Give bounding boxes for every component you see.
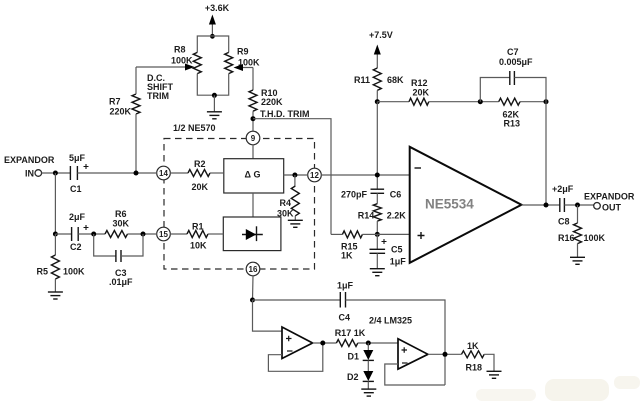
svg-text:R16: R16	[558, 233, 575, 243]
wire R16 drop	[577, 205, 579, 223]
svg-text:9: 9	[251, 134, 256, 143]
resistor R18 1K	[462, 341, 485, 373]
wire R2 to gain cell	[210, 172, 224, 174]
resistor R14 2.2K	[358, 204, 407, 221]
node op-amp B output junction	[443, 352, 448, 357]
wire C8 to OUT	[564, 204, 593, 206]
svg-text:R11: R11	[354, 75, 370, 85]
node R4 junction	[292, 173, 297, 178]
svg-text:0.005μF: 0.005μF	[499, 57, 533, 67]
capacitor C3 .01uF parallel branch	[94, 234, 143, 287]
node output feedback junction	[544, 203, 549, 208]
svg-text:10K: 10K	[190, 241, 207, 251]
svg-text:R12: R12	[411, 78, 428, 88]
svg-text:T.H.D. TRIM: T.H.D. TRIM	[260, 109, 310, 119]
pin 15	[157, 227, 171, 241]
svg-text:R5: R5	[36, 267, 48, 277]
resistor R1 10K	[187, 222, 208, 251]
svg-text:OUT: OUT	[602, 203, 622, 213]
ground under R18	[487, 371, 502, 378]
svg-text:C4: C4	[339, 313, 351, 323]
svg-text:20K: 20K	[413, 88, 430, 98]
capacitor C1 5uF	[69, 153, 89, 194]
node R11/R12 junction	[375, 99, 380, 104]
pin 14	[157, 166, 171, 180]
wire op-amp B output	[428, 353, 462, 355]
svg-text:EXPANDOR: EXPANDOR	[584, 192, 635, 202]
wire feedback to output node	[545, 102, 547, 205]
svg-text:R14: R14	[358, 211, 375, 221]
wire op-amp A feedback loop	[268, 343, 322, 371]
wire IN to C1	[42, 172, 71, 174]
diode D2	[347, 360, 374, 382]
resistor R4 30K	[277, 186, 299, 219]
svg-text:Δ G: Δ G	[245, 169, 261, 179]
wire op-amp output	[522, 204, 560, 206]
node D.C. SHIFT TRIM label	[147, 73, 174, 101]
svg-text:100K: 100K	[63, 267, 85, 277]
wire R7 bottom to input line	[135, 114, 137, 173]
wire R16 to ground	[577, 244, 579, 257]
wire D.C. shift trim wiper into R8	[136, 64, 195, 71]
svg-text:+7.5V: +7.5V	[369, 30, 393, 40]
svg-text:1K: 1K	[341, 251, 353, 261]
svg-text:2/4 LM325: 2/4 LM325	[369, 316, 412, 326]
svg-text:R2: R2	[194, 159, 206, 169]
svg-text:30K: 30K	[277, 209, 294, 219]
wire D2 to ground	[367, 381, 369, 388]
svg-text:.01μF: .01μF	[109, 277, 133, 287]
resistor R11 68K	[354, 68, 404, 90]
svg-text:NE5534: NE5534	[425, 197, 474, 212]
resistor R2 20K	[188, 159, 210, 192]
svg-text:1μF: 1μF	[337, 281, 354, 291]
wire R5 drop	[54, 234, 56, 255]
svg-text:220K: 220K	[109, 107, 131, 117]
svg-text:+2μF: +2μF	[552, 184, 574, 194]
svg-text:R13: R13	[504, 119, 521, 129]
node diode junction	[366, 341, 371, 346]
wire C1 to pin 14	[77, 172, 156, 174]
svg-text:R18: R18	[466, 363, 483, 373]
resistor R6 30K	[105, 209, 130, 238]
svg-text:5μF: 5μF	[69, 153, 86, 163]
IC U1 1/2 NE570 dashed outline	[164, 123, 315, 269]
resistor R9 100K (trim pot)	[225, 47, 260, 74]
resistor R15 1K	[331, 231, 377, 261]
wire gain cell output to pin 12	[284, 174, 308, 176]
wire to C4	[253, 299, 341, 301]
ground under R5	[48, 292, 63, 299]
node C2 junction	[53, 232, 58, 237]
wire R6 to pin 15	[128, 233, 157, 235]
wire R14 to plus node	[376, 221, 378, 234]
wire C2 to R6	[78, 233, 105, 235]
capacitor C2 2uF	[69, 212, 89, 252]
op-amp U3B	[398, 339, 428, 369]
wire +7.5V supply arrow	[374, 45, 381, 69]
wire op-amp A output	[313, 342, 337, 344]
node R7 junction	[134, 171, 139, 176]
wire C6 to R14	[376, 193, 378, 203]
resistor R5 100K	[36, 255, 85, 279]
ground under R4	[288, 220, 303, 227]
svg-text:20K: 20K	[192, 182, 209, 192]
svg-text:R17 1K: R17 1K	[335, 328, 366, 338]
capacitor C8 +2uF	[552, 184, 574, 227]
pin 12	[308, 168, 322, 182]
wire R8/R9 top bus	[197, 36, 228, 52]
svg-text:R7: R7	[109, 97, 121, 107]
capacitor C7 0.005uF parallel branch	[480, 47, 546, 102]
diode D3 rectifier symbol	[242, 226, 263, 241]
node op-amp A output junction	[320, 341, 325, 346]
node C4 junction	[250, 298, 255, 303]
wire minus-input rail	[321, 102, 410, 189]
wire R1 to rectifier	[208, 233, 223, 235]
node T.H.D. trim	[251, 116, 256, 121]
svg-text:EXPANDOR: EXPANDOR	[4, 155, 55, 165]
op-amp U2 NE5534	[410, 147, 522, 263]
node A top of R8/R9	[210, 34, 215, 39]
ground under C5	[370, 269, 385, 276]
wire R4 drop	[294, 175, 296, 186]
wire R7 top to wiper line	[135, 67, 137, 94]
wire input down-leg	[54, 173, 56, 234]
svg-text:30K: 30K	[113, 219, 130, 229]
svg-text:D2: D2	[347, 372, 359, 382]
resistor R7 220K	[109, 94, 140, 117]
svg-text:IN: IN	[25, 169, 34, 179]
svg-text:C6: C6	[390, 190, 402, 200]
ground under D2	[361, 389, 376, 396]
svg-text:16: 16	[249, 265, 258, 274]
wire R18 to ground	[484, 354, 494, 371]
wire R11 to bus	[376, 90, 378, 101]
svg-text:C5: C5	[391, 245, 403, 255]
wire R9 wiper to R10	[234, 64, 254, 90]
wire R4 to ground	[294, 216, 296, 220]
node C3 left junction	[91, 232, 96, 237]
pin 9	[246, 131, 260, 145]
ground under R16	[570, 257, 585, 264]
wire pin 16 drop	[252, 276, 255, 300]
svg-text:2.2K: 2.2K	[387, 211, 407, 221]
svg-text:C1: C1	[70, 184, 82, 194]
svg-text:TRIM: TRIM	[147, 91, 169, 101]
node bottom of R8/R9	[212, 93, 217, 98]
wire +3.6K supply arrow	[209, 15, 216, 37]
pin 16	[246, 262, 260, 276]
svg-text:R1: R1	[192, 222, 204, 232]
ground under R8/R9	[207, 112, 222, 119]
svg-text:15: 15	[159, 230, 168, 239]
node C3 right junction	[141, 232, 146, 237]
resistor R16 100K	[558, 223, 606, 244]
capacitor C4 1uF	[337, 281, 354, 323]
wire to C2	[55, 233, 71, 235]
wire op-amp A input	[253, 300, 283, 331]
wire pin 15 to R1	[170, 233, 187, 235]
node minus input junction	[375, 173, 380, 178]
capacitor C6 270pF	[341, 189, 401, 199]
wire R17 to op-amp B	[358, 342, 398, 344]
svg-text:R9: R9	[237, 47, 249, 57]
resistor R13 62K	[499, 98, 520, 128]
block rectifier	[223, 217, 281, 251]
terminal EXPANDOR OUT	[584, 192, 635, 213]
svg-text:1K: 1K	[467, 341, 479, 351]
svg-text:R8: R8	[174, 45, 186, 55]
wire C4 to right drop	[346, 300, 446, 385]
wire feedback bus	[377, 101, 546, 103]
wire pin 9 to gain cell	[252, 145, 254, 159]
terminal EXPANDOR IN	[4, 155, 55, 179]
svg-text:+3.6K: +3.6K	[205, 3, 230, 13]
wire op-amp B feedback loop	[385, 364, 445, 385]
node C7 left junction	[478, 99, 483, 104]
svg-text:1μF: 1μF	[390, 257, 407, 267]
capacitor C5 1uF	[370, 234, 407, 268]
wire R8/R9 bottom bus	[197, 74, 228, 96]
svg-text:C2: C2	[70, 242, 82, 252]
svg-text:2μF: 2μF	[69, 212, 86, 222]
svg-text:R6: R6	[115, 209, 127, 219]
svg-text:220K: 220K	[261, 97, 283, 107]
resistor R17 1K	[335, 328, 366, 347]
svg-text:C7: C7	[507, 47, 519, 57]
resistor R12 20K	[409, 78, 430, 105]
op-amp U3A	[282, 327, 313, 359]
diode D1	[348, 343, 374, 362]
wire plus input to op-amp	[377, 233, 409, 235]
svg-text:12: 12	[310, 171, 319, 180]
block delta-G gain cell	[224, 159, 284, 193]
wire R5 to ground	[54, 279, 56, 292]
svg-text:1/2 NE570: 1/2 NE570	[173, 123, 216, 133]
resistor R8 100K (trim pot)	[171, 45, 201, 74]
node input junction	[53, 171, 58, 176]
node R16 junction	[575, 203, 580, 208]
wire THD node to R15 branch	[253, 119, 331, 235]
svg-text:68K: 68K	[387, 75, 404, 85]
wire stub to ground	[213, 95, 215, 111]
node plus input junction	[375, 232, 380, 237]
wire gain cell to rectifier	[252, 193, 254, 217]
svg-text:270pF: 270pF	[341, 190, 368, 200]
svg-text:100K: 100K	[171, 56, 193, 66]
svg-text:C8: C8	[558, 217, 570, 227]
resistor R10 220K	[249, 88, 283, 111]
svg-text:14: 14	[159, 169, 168, 178]
wire R10 to node	[252, 111, 254, 131]
node R13/C7 right junction	[544, 99, 549, 104]
wire pin 14 to R2	[170, 172, 188, 174]
svg-text:100K: 100K	[584, 233, 606, 243]
svg-text:D1: D1	[348, 352, 360, 362]
svg-text:R4: R4	[279, 198, 291, 208]
